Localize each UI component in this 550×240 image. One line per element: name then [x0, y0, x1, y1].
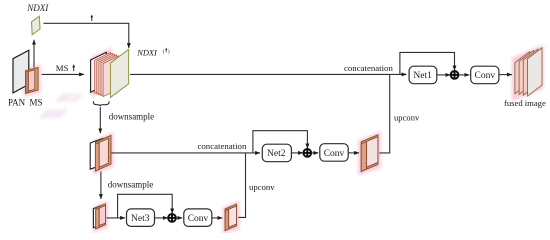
svg-text:upconv: upconv: [249, 182, 275, 192]
svg-text:Conv: Conv: [188, 214, 209, 224]
svg-text:): ): [168, 48, 170, 55]
svg-text:upconv: upconv: [394, 113, 420, 123]
svg-text:Conv: Conv: [324, 149, 345, 159]
svg-text:Net3: Net3: [131, 214, 150, 224]
svg-text:downsample: downsample: [108, 180, 154, 190]
svg-text:Net1: Net1: [413, 71, 432, 81]
svg-text:downsample: downsample: [109, 111, 155, 121]
svg-text:NDXI: NDXI: [136, 48, 158, 57]
svg-text:concatenation: concatenation: [344, 63, 393, 73]
svg-text:NDXI: NDXI: [26, 3, 49, 13]
svg-text:MS: MS: [56, 63, 69, 73]
svg-text:fused image: fused image: [504, 98, 546, 108]
svg-text:Conv: Conv: [475, 71, 496, 81]
svg-text:Net2: Net2: [267, 149, 286, 159]
svg-text:MS: MS: [30, 97, 43, 107]
svg-text:PAN: PAN: [8, 97, 26, 107]
svg-text:(: (: [163, 48, 165, 55]
svg-text:concatenation: concatenation: [198, 141, 247, 151]
